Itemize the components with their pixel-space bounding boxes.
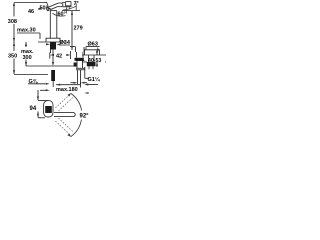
svg-text:max.30: max.30 [17, 28, 36, 34]
svg-text:308: 308 [8, 19, 17, 25]
svg-text:300: 300 [23, 55, 32, 61]
svg-text:40-53: 40-53 [88, 58, 101, 64]
svg-text:50°: 50° [40, 6, 48, 12]
svg-text:G⅜: G⅜ [29, 79, 38, 85]
svg-text:7°: 7° [74, 1, 79, 7]
svg-text:279: 279 [74, 26, 83, 32]
svg-text:46: 46 [28, 9, 34, 15]
svg-text:Ø63: Ø63 [88, 42, 98, 48]
svg-text:60°: 60° [58, 12, 66, 18]
svg-text:94: 94 [30, 106, 37, 112]
svg-text:max.180: max.180 [56, 87, 78, 93]
svg-text:G1¼: G1¼ [88, 76, 100, 83]
svg-text:350: 350 [8, 54, 17, 60]
svg-text:92°: 92° [80, 114, 90, 120]
svg-text:42: 42 [56, 54, 62, 60]
svg-text:Ø34: Ø34 [60, 40, 71, 46]
